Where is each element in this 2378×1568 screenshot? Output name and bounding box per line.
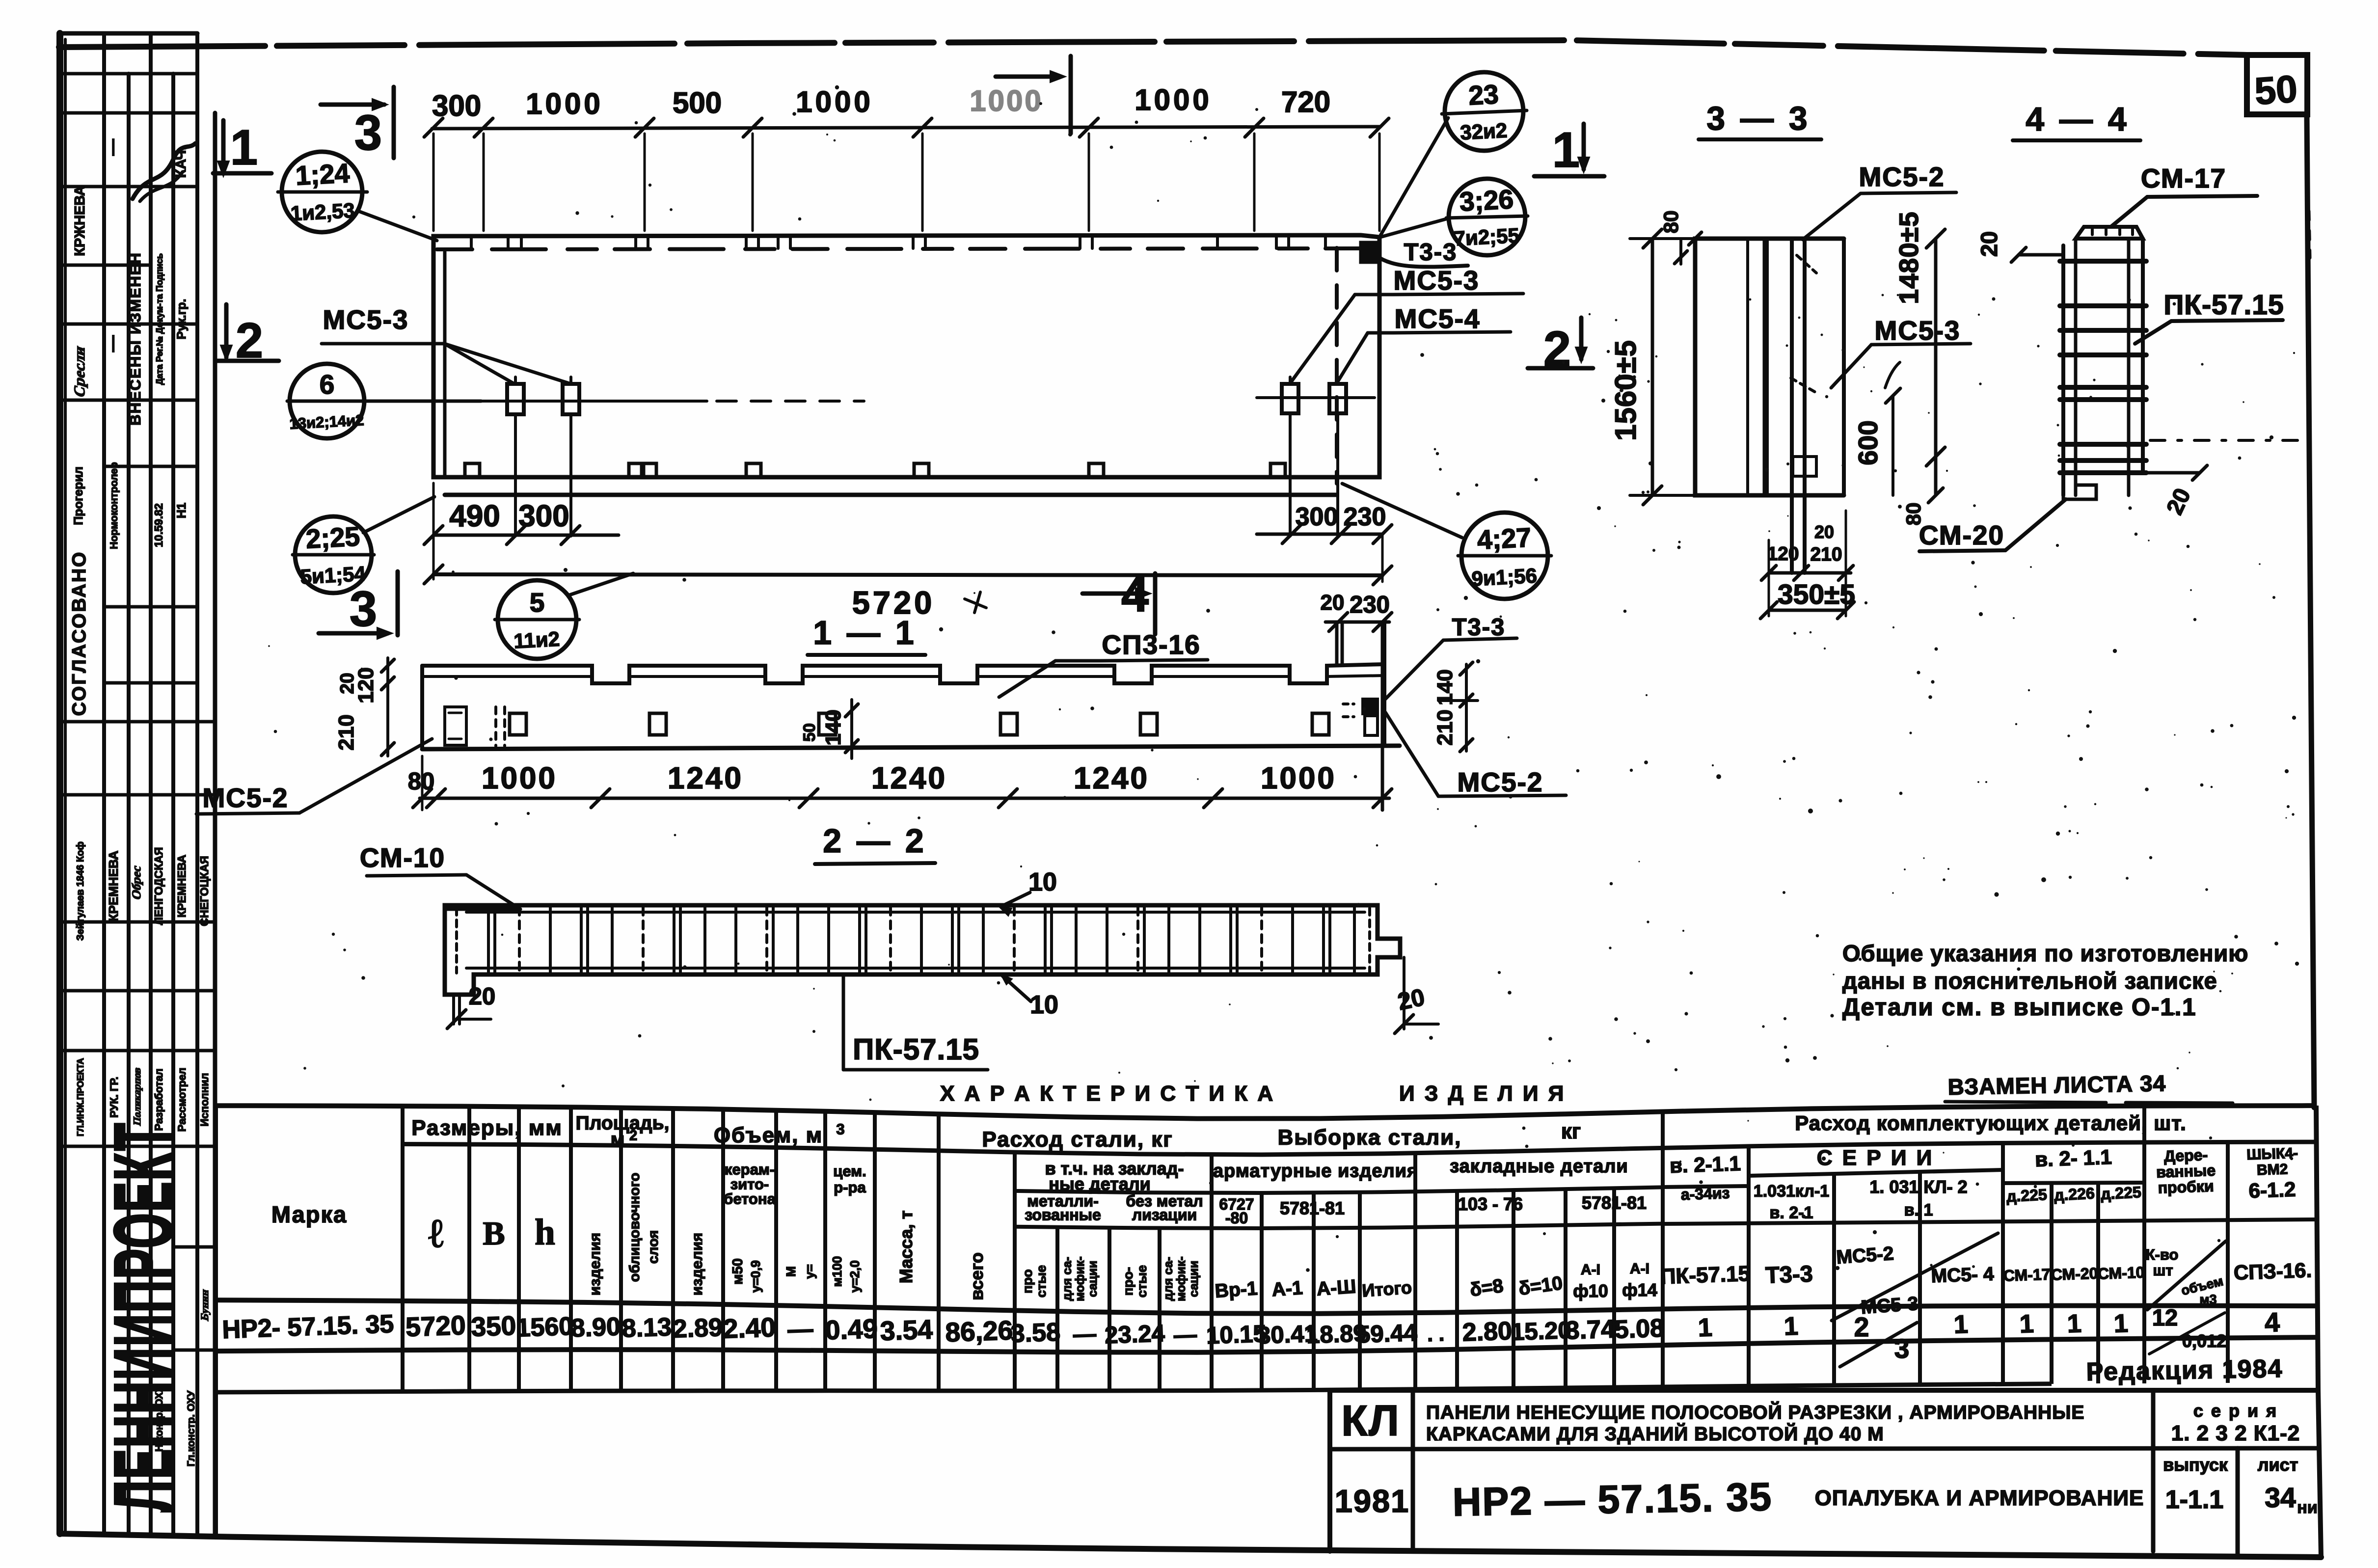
marker circle 4;27: [1461, 513, 1548, 599]
stud axis left: [481, 400, 707, 403]
svg-text:Редакция 1984: Редакция 1984: [2086, 1354, 2283, 1386]
svg-text:1981: 1981: [1335, 1483, 1410, 1519]
svg-text:23: 23: [1468, 79, 1499, 110]
svg-text:РУК. ГР.: РУК. ГР.: [108, 1077, 120, 1118]
svg-text:2: 2: [1543, 322, 1571, 377]
svg-text:м100: м100: [830, 1256, 844, 1287]
svg-text:у=0,9: у=0,9: [748, 1260, 763, 1293]
ladder top cap: [2076, 227, 2143, 239]
svg-text:1. 031 КЛ- 2: 1. 031 КЛ- 2: [1869, 1177, 1967, 1197]
marker circle 1;24: [282, 152, 362, 232]
svg-text:КРЕМНЕВА: КРЕМНЕВА: [175, 855, 188, 918]
svg-text:арматурные изделия: арматурные изделия: [1213, 1161, 1418, 1181]
bottom edge hooks: [465, 463, 480, 477]
svg-text:А-1: А-1: [1271, 1277, 1303, 1300]
svg-text:СПЗ-16.: СПЗ-16.: [2233, 1258, 2312, 1284]
svg-text:В: В: [483, 1215, 505, 1252]
section mark 2 left: [224, 304, 229, 357]
svg-text:СМ-20: СМ-20: [1919, 520, 2004, 550]
anchor stud left 1: [507, 384, 524, 414]
svg-text:ПК-57.15: ПК-57.15: [1660, 1262, 1751, 1289]
svg-text:2: 2: [629, 1128, 637, 1144]
anchor stud right 2: [1329, 384, 1346, 413]
svg-text:КЛ: КЛ: [1341, 1396, 1400, 1445]
title block frame: [1327, 1390, 1332, 1551]
stamp strip cell lines: [60, 72, 197, 76]
svg-text:230: 230: [1344, 503, 1386, 531]
svg-text:2.89: 2.89: [673, 1313, 723, 1343]
svg-text:Разработал: Разработал: [153, 1069, 165, 1131]
1-1 mid dashed marks: [494, 707, 497, 746]
label ПК-57.15 callout: [842, 974, 845, 1070]
svg-text:в. 2-1.1: в. 2-1.1: [1669, 1152, 1741, 1177]
section mark 4 top: [996, 75, 1060, 79]
svg-text:1240: 1240: [1074, 761, 1149, 795]
svg-text:д.225: д.225: [2100, 1183, 2141, 1203]
svg-text:М: М: [784, 1266, 798, 1277]
svg-text:ШЫК4-: ШЫК4-: [2246, 1145, 2298, 1163]
svg-text:СМ-10: СМ-10: [360, 842, 445, 873]
svg-text:СП3-16: СП3-16: [1102, 629, 1200, 660]
svg-text:1560±5: 1560±5: [1609, 340, 1642, 441]
svg-text:у=: у=: [802, 1264, 817, 1279]
svg-text:сации: сации: [1086, 1261, 1100, 1297]
svg-text:С Е Р И И: С Е Р И И: [1817, 1146, 1934, 1170]
svg-text:цем.: цем.: [833, 1162, 866, 1180]
svg-text:в. 1: в. 1: [1904, 1201, 1933, 1219]
svg-text:. .: . .: [1427, 1322, 1445, 1346]
dim 20 right bottom of ladder: [2143, 471, 2200, 475]
svg-text:Итого: Итого: [1361, 1277, 1412, 1301]
svg-text:Рук.гр.: Рук.гр.: [175, 299, 189, 340]
table line above data row: [216, 1300, 2316, 1314]
svg-text:50: 50: [2253, 67, 2299, 113]
svg-text:1-1.1: 1-1.1: [2165, 1486, 2224, 1514]
svg-text:103 - 76: 103 - 76: [1458, 1194, 1523, 1214]
svg-text:—: —: [103, 139, 122, 156]
svg-text:5720: 5720: [405, 1310, 466, 1342]
table outer top: [216, 1106, 2316, 1119]
svg-text:300: 300: [432, 89, 481, 122]
svg-text:1560: 1560: [516, 1312, 574, 1343]
svg-text:м: м: [611, 1129, 625, 1150]
svg-text:350±5: 350±5: [1778, 579, 1855, 610]
svg-text:2: 2: [1854, 1312, 1869, 1342]
svg-text:3.58: 3.58: [1010, 1318, 1061, 1348]
svg-text:м50: м50: [730, 1258, 746, 1285]
bottom-right dims 300 230: [1257, 533, 1382, 536]
svg-text:500: 500: [673, 86, 722, 119]
svg-text:4: 4: [2264, 1307, 2280, 1338]
svg-text:210: 210: [1810, 544, 1842, 565]
svg-text:для са-: для са-: [1162, 1257, 1175, 1301]
svg-text:140: 140: [821, 709, 845, 745]
svg-text:230: 230: [1350, 592, 1390, 618]
stud axis right: [1257, 396, 1375, 399]
svg-text:80: 80: [408, 768, 435, 795]
marker circle 3;26: [1449, 179, 1525, 255]
svg-text:ЛЕНГОДСКАЯ: ЛЕНГОДСКАЯ: [152, 847, 165, 925]
svg-text:5781-81: 5781-81: [1582, 1192, 1647, 1213]
ladder foot: [2063, 485, 2096, 499]
svg-text:7и2;55: 7и2;55: [1453, 224, 1520, 250]
svg-text:МС5-2: МС5-2: [1859, 162, 1945, 192]
3-3 dim 600: [1892, 396, 1894, 495]
section 1-1 body: [422, 664, 1384, 683]
svg-text:Прогерил: Прогерил: [72, 466, 85, 525]
panel right dashed edge: [1335, 248, 1339, 484]
svg-text:ни: ни: [2297, 1498, 2317, 1517]
bottom shelf line: [445, 493, 1337, 497]
anchor stud left 2: [563, 384, 579, 414]
svg-text:Н1: Н1: [175, 503, 189, 518]
svg-text:300: 300: [1296, 503, 1338, 531]
svg-text:кг: кг: [1561, 1119, 1581, 1143]
svg-text:мофик-: мофик-: [1073, 1256, 1087, 1301]
svg-text:выпуск: выпуск: [2163, 1455, 2228, 1475]
svg-text:4 — 4: 4 — 4: [2026, 101, 2129, 138]
svg-text:1000: 1000: [1261, 761, 1336, 795]
section mark 1 right: [1582, 124, 1586, 169]
svg-text:Сресли: Сресли: [71, 344, 88, 400]
page number box 50: [2247, 55, 2307, 114]
T3-3 corner embed: [1361, 243, 1376, 262]
2-2 stirrup bars: [487, 907, 490, 973]
svg-text:12: 12: [2152, 1304, 2178, 1330]
svg-text:0.49: 0.49: [825, 1313, 878, 1346]
svg-text:ОПАЛУБКА И АРМИРОВАНИЕ: ОПАЛУБКА И АРМИРОВАНИЕ: [1815, 1486, 2144, 1510]
svg-text:д.226: д.226: [2054, 1184, 2095, 1204]
svg-text:2;25: 2;25: [305, 521, 360, 554]
svg-text:А-Ш: А-Ш: [1316, 1276, 1357, 1299]
svg-text:1: 1: [1552, 123, 1580, 178]
svg-text:1000: 1000: [1135, 83, 1212, 116]
svg-text:СНЕГОЦКАЯ: СНЕГОЦКАЯ: [198, 856, 211, 926]
svg-text:с е р и я: с е р и я: [2193, 1401, 2278, 1421]
svg-text:5.08: 5.08: [1614, 1314, 1665, 1344]
svg-text:2.80: 2.80: [1462, 1317, 1513, 1347]
svg-text:59.44: 59.44: [1356, 1320, 1417, 1348]
svg-text:3 — 3: 3 — 3: [1706, 100, 1810, 137]
svg-text:бетона: бетона: [724, 1190, 776, 1208]
table second row bottom: [216, 1384, 2052, 1392]
svg-text:стые: стые: [1135, 1265, 1149, 1298]
svg-text:20: 20: [1814, 522, 1834, 542]
svg-text:НР2- 57.15. 35: НР2- 57.15. 35: [222, 1310, 395, 1344]
svg-text:1240: 1240: [871, 761, 947, 795]
svg-text:ВМ2: ВМ2: [2256, 1161, 2288, 1178]
svg-text:3.54: 3.54: [880, 1314, 934, 1347]
svg-text:4;27: 4;27: [1476, 522, 1532, 555]
svg-text:в. 2- 1.1: в. 2- 1.1: [2034, 1145, 2112, 1171]
svg-text:3: 3: [350, 582, 377, 637]
svg-text:Дата Рег.№ Докум-та Подпись: Дата Рег.№ Докум-та Подпись: [155, 253, 164, 385]
top dimension line 300,1000,500,1000,1000,1000,720: [432, 127, 1380, 129]
svg-text:3;26: 3;26: [1459, 184, 1514, 217]
table line below data row: [216, 1337, 2316, 1352]
sheet bottom border: [60, 1534, 2321, 1557]
svg-text:Расход стали, кг: Расход стали, кг: [982, 1127, 1173, 1151]
section mark 4 bottom: [1082, 592, 1146, 596]
1-1 small holes: [510, 713, 526, 735]
svg-text:И З Д Е Л И Я: И З Д Е Л И Я: [1399, 1081, 1566, 1106]
svg-text:МС5- 4: МС5- 4: [1931, 1264, 1995, 1287]
dim 20 bottom right of 2-2: [1403, 957, 1405, 1029]
1-1 left embed dashed: [445, 707, 466, 745]
svg-text:ф14: ф14: [1622, 1280, 1657, 1300]
svg-text:350: 350: [470, 1310, 516, 1342]
svg-text:р-ра: р-ра: [834, 1179, 866, 1196]
svg-text:Н.контр. ОХУ: Н.контр. ОХУ: [154, 1385, 165, 1452]
svg-text:1 — 1: 1 — 1: [813, 614, 917, 651]
svg-text:МС5-3: МС5-3: [323, 304, 408, 335]
svg-text:5781-81: 5781-81: [1280, 1198, 1345, 1218]
svg-text:ЛЕННИИПРОЕКТ: ЛЕННИИПРОЕКТ: [97, 1122, 189, 1512]
svg-text:ные детали: ные детали: [1049, 1174, 1151, 1194]
svg-text:32и2: 32и2: [1459, 119, 1508, 144]
svg-text:для са-: для са-: [1060, 1257, 1074, 1301]
dim 20 bottom left of 2-2: [452, 995, 455, 1024]
scan speckle: [268, 85, 2299, 1272]
svg-text:закладные детали: закладные детали: [1450, 1156, 1628, 1177]
svg-text:Объем, м: Объем, м: [714, 1123, 823, 1147]
svg-text:ℓ: ℓ: [428, 1211, 443, 1256]
svg-text:3.74: 3.74: [1565, 1315, 1616, 1345]
marker circle 23: [1445, 72, 1523, 151]
section mark 3 bottom: [319, 631, 388, 636]
svg-text:86,26: 86,26: [945, 1315, 1013, 1348]
svg-text:10.59.82: 10.59.82: [152, 503, 165, 547]
svg-text:у=2,0: у=2,0: [847, 1260, 862, 1293]
svg-text:стые: стые: [1034, 1265, 1049, 1298]
svg-text:К-во: К-во: [2146, 1246, 2179, 1263]
svg-text:Исполнил: Исполнил: [198, 1073, 211, 1127]
svg-text:490: 490: [449, 499, 500, 533]
3-3 dashed embed marks: [1797, 255, 1816, 273]
section 2-2 body: [445, 905, 1400, 995]
svg-text:лист: лист: [2258, 1455, 2298, 1475]
svg-text:Т3-3: Т3-3: [1404, 239, 1458, 266]
section mark 1 left: [221, 120, 226, 173]
svg-text:1и2,53: 1и2,53: [290, 199, 355, 225]
svg-text:600: 600: [1853, 420, 1883, 465]
dim 20 left of ladder: [2019, 253, 2063, 257]
svg-text:120: 120: [1767, 543, 1799, 565]
svg-text:—: —: [103, 335, 122, 352]
table header line 3: [1015, 1224, 1663, 1228]
svg-text:10: 10: [1030, 991, 1058, 1019]
svg-text:слоя: слоя: [646, 1230, 661, 1264]
svg-text:20: 20: [1976, 231, 2002, 257]
svg-text:Выборка стали,: Выборка стали,: [1278, 1125, 1462, 1149]
svg-text:6: 6: [320, 369, 335, 400]
svg-text:Масса, т: Масса, т: [896, 1211, 916, 1284]
svg-text:ГЛ.ИНЖ.ПРОЕКТА: ГЛ.ИНЖ.ПРОЕКТА: [76, 1058, 85, 1136]
svg-text:—: —: [787, 1315, 813, 1344]
dashed line right of ladder: [2150, 439, 2302, 442]
svg-text:МС5-4: МС5-4: [1394, 303, 1480, 334]
svg-text:ПАНЕЛИ НЕНЕСУЩИЕ ПОЛОСОВОЙ: ПАНЕЛИ НЕНЕСУЩИЕ ПОЛОСОВОЙ РАЗРЕЗКИ , АР…: [1426, 1401, 2084, 1423]
2-2 end bars dashed: [455, 908, 458, 973]
svg-text:1000: 1000: [526, 87, 603, 120]
svg-text:50: 50: [800, 723, 819, 742]
svg-text:2: 2: [236, 313, 263, 368]
table header line 1: [403, 1142, 2316, 1155]
svg-text:КРЖНЕВА: КРЖНЕВА: [72, 186, 88, 256]
3-3 left dim 1560±5: [1651, 239, 1654, 495]
svg-text:6-1.2: 6-1.2: [2248, 1178, 2296, 1202]
svg-text:ВЗАМЕН ЛИСТА 34: ВЗАМЕН ЛИСТА 34: [1947, 1070, 2166, 1100]
svg-text:Т3-3: Т3-3: [1765, 1260, 1813, 1288]
svg-text:h: h: [535, 1212, 555, 1253]
svg-text:МС5-2: МС5-2: [202, 783, 288, 813]
svg-text:СОГЛАСОВАНО: СОГЛАСОВАНО: [69, 551, 90, 716]
svg-text:1: 1: [1783, 1312, 1799, 1341]
table right edge: [2316, 1106, 2318, 1390]
svg-text:лизации: лизации: [1132, 1206, 1197, 1224]
top edge teeth: [470, 236, 473, 248]
svg-text:СМ-17: СМ-17: [2141, 163, 2226, 193]
svg-text:2 — 2: 2 — 2: [823, 822, 926, 860]
svg-text:СМ-17: СМ-17: [2003, 1265, 2051, 1284]
section 3-3 body: [1695, 239, 1765, 495]
svg-text:облицовочного: облицовочного: [627, 1173, 643, 1282]
svg-text:20: 20: [469, 983, 496, 1010]
section 1-1 bottom dim 80 1000 1240 1240 1240 1000: [420, 797, 1389, 800]
section 1-1 right end block: [1382, 622, 1386, 746]
svg-text:Обрес: Обрес: [129, 864, 143, 901]
svg-text:1: 1: [230, 120, 258, 175]
svg-text:Расход комплектующих деталей,: Расход комплектующих деталей, шт.: [1795, 1111, 2187, 1135]
svg-text:Нормоконтролер: Нормоконтролер: [108, 462, 120, 549]
marker circle 5: [498, 580, 576, 659]
svg-text:5: 5: [530, 587, 545, 618]
svg-text:210: 210: [1433, 709, 1457, 745]
svg-text:изделия: изделия: [586, 1233, 603, 1296]
marker circle 2;25: [295, 516, 372, 593]
section 1-1 bottom: [422, 746, 1400, 749]
svg-text:20: 20: [1395, 984, 1427, 1015]
svg-text:—: —: [1073, 1321, 1097, 1348]
svg-text:про: про: [1020, 1269, 1035, 1293]
svg-text:а-34из: а-34из: [1680, 1184, 1730, 1203]
bottom-left dims 490 300: [433, 534, 619, 537]
svg-text:ПК-57.15: ПК-57.15: [2163, 289, 2284, 321]
table left edge: [213, 1106, 218, 1537]
svg-text:1. 2 3 2 К1-2: 1. 2 3 2 К1-2: [2171, 1421, 2300, 1445]
svg-text:СМ-10: СМ-10: [2097, 1263, 2145, 1282]
panel axis dashed line: [437, 248, 1375, 249]
svg-text:д.225: д.225: [2006, 1186, 2047, 1205]
svg-text:1000: 1000: [482, 761, 557, 795]
svg-text:1480±5: 1480±5: [1893, 211, 1924, 304]
table header line 2: [1015, 1187, 1663, 1193]
signature squiggle: [133, 143, 195, 199]
svg-text:А-I: А-I: [1581, 1262, 1600, 1278]
svg-text:5и1;54: 5и1;54: [299, 562, 366, 589]
svg-text:10: 10: [1028, 868, 1057, 896]
svg-text:ПК-57.15: ПК-57.15: [853, 1033, 979, 1066]
svg-text:1240: 1240: [668, 761, 743, 795]
svg-text:Поликарпов: Поликарпов: [131, 1066, 143, 1127]
svg-text:8.13: 8.13: [622, 1313, 672, 1343]
svg-text:8.90: 8.90: [570, 1312, 621, 1342]
sheet right border: [2307, 114, 2314, 1108]
svg-text:МС5-3: МС5-3: [1393, 265, 1479, 296]
overall dim 5720: [433, 574, 1382, 575]
svg-text:КРЕМНЕВА: КРЕМНЕВА: [106, 850, 121, 921]
svg-text:9и1;56: 9и1;56: [1471, 564, 1538, 591]
svg-text:3: 3: [354, 106, 382, 161]
svg-text:20: 20: [1321, 591, 1345, 615]
svg-text:15.20: 15.20: [1511, 1317, 1571, 1346]
svg-text:А-I: А-I: [1630, 1261, 1649, 1277]
svg-text:1: 1: [1698, 1313, 1713, 1342]
svg-text:1;24: 1;24: [295, 158, 351, 191]
svg-text:1.031кл-1: 1.031кл-1: [1754, 1182, 1829, 1200]
svg-text:шт: шт: [2153, 1262, 2173, 1279]
svg-text:1: 1: [2019, 1310, 2034, 1339]
svg-text:НР2 — 57.15. 35: НР2 — 57.15. 35: [1452, 1475, 1773, 1524]
panel elevation outline: [433, 235, 1379, 477]
svg-text:зованные: зованные: [1025, 1206, 1101, 1223]
svg-text:720: 720: [1281, 85, 1330, 118]
svg-text:80: 80: [1659, 211, 1682, 234]
svg-text:1: 1: [2067, 1309, 2082, 1338]
svg-text:1000: 1000: [796, 85, 873, 118]
svg-text:Зейтулаев 1846 Коф: Зейтулаев 1846 Коф: [75, 841, 86, 941]
3-3 right dim 1480: [1934, 239, 1938, 495]
svg-text:Вр-1: Вр-1: [1214, 1278, 1258, 1302]
svg-text:120: 120: [354, 667, 378, 703]
svg-text:ф10: ф10: [1573, 1281, 1608, 1301]
svg-text:1: 1: [2113, 1309, 2129, 1338]
svg-text:сации: сации: [1187, 1261, 1201, 1297]
svg-text:Марка: Марка: [271, 1201, 347, 1227]
ladder frame: [2061, 245, 2065, 495]
svg-text:11и2: 11и2: [513, 627, 560, 653]
svg-text:СМ-20: СМ-20: [2051, 1264, 2098, 1283]
1-1 T3-3 embed right: [1363, 699, 1378, 714]
svg-text:ВНЕСЕНЫ ИЗМЕНЕН: ВНЕСЕНЫ ИЗМЕНЕН: [127, 252, 144, 426]
svg-text:210: 210: [334, 714, 358, 750]
svg-text:Х А Р А К Т Е Р И С Т И К А: Х А Р А К Т Е Р И С Т И К А: [940, 1081, 1275, 1106]
svg-text:в. 2-1: в. 2-1: [1770, 1203, 1813, 1222]
svg-text:300: 300: [518, 499, 569, 533]
svg-text:КАРКАСАМИ ДЛЯ ЗДАНИЙ ВЫСОТО: КАРКАСАМИ ДЛЯ ЗДАНИЙ ВЫСОТОЙ ДО 40 М: [1426, 1423, 1884, 1445]
svg-text:Т3-3: Т3-3: [1452, 614, 1506, 641]
svg-text:3: 3: [1894, 1333, 1910, 1364]
section mark 3 top: [321, 103, 384, 107]
svg-text:1000: 1000: [970, 84, 1043, 117]
ladder rungs: [2060, 259, 2146, 264]
svg-text:МС5-2: МС5-2: [1457, 767, 1543, 797]
section mark 2 right: [1579, 318, 1584, 359]
svg-text:про-: про-: [1121, 1267, 1135, 1296]
svg-text:1: 1: [1953, 1310, 1969, 1339]
svg-text:Общие указания по изготовлению: Общие указания по изготовлению: [1842, 940, 2248, 966]
left stamp strip frame: [56, 33, 63, 1534]
svg-text:Бунин: Бунин: [198, 1288, 211, 1322]
table column lines: [401, 1106, 405, 1391]
anchor stud right 1: [1282, 384, 1298, 413]
svg-text:-80: -80: [1225, 1209, 1248, 1227]
svg-text:23.24: 23.24: [1104, 1320, 1165, 1349]
svg-text:34: 34: [2265, 1482, 2296, 1514]
svg-text:МС5-2: МС5-2: [1836, 1243, 1894, 1268]
svg-text:МС5-3: МС5-3: [1874, 315, 1960, 346]
svg-text:—: —: [1173, 1321, 1197, 1348]
